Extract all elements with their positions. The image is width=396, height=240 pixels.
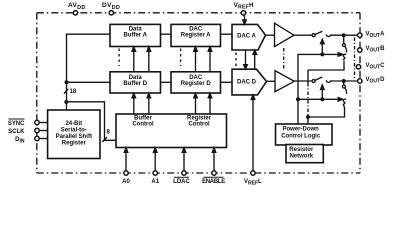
pin VOUTC (356, 65, 360, 69)
svg-text:ENABLE: ENABLE (202, 179, 225, 185)
svg-text:18: 18 (70, 89, 77, 95)
op-amp D (275, 71, 294, 92)
junction power-down rail 1 (296, 97, 300, 101)
switch C blade (345, 88, 347, 94)
svg-text:Control: Control (132, 122, 154, 128)
wire DIN to shift register (39, 138, 47, 140)
svg-text:DAC D: DAC D (237, 80, 257, 86)
wire switch B down to rail (308, 61, 344, 71)
svg-text:Serial-to-: Serial-to- (61, 127, 87, 133)
junction data bus to buffers (65, 80, 69, 84)
switch A blade (315, 31, 322, 34)
power-down rail 2 upper (307, 70, 309, 83)
24-bit serial-to-parallel shift register (48, 110, 100, 159)
pin SYNC (35, 120, 39, 124)
svg-text:DIN: DIN (15, 137, 25, 145)
junction control rail D/C (320, 97, 324, 101)
pin DIN (35, 136, 39, 140)
switch B top contact (342, 44, 345, 47)
svg-text:Power-Down: Power-Down (283, 126, 320, 132)
arrow up to switch A (321, 42, 323, 55)
wire buffer A to register A (161, 33, 172, 35)
svg-text:A1: A1 (151, 179, 159, 185)
Data Buffer A (110, 24, 161, 46)
junction control rail A/B (320, 52, 324, 56)
continuation dash-dot amps (283, 48, 285, 69)
junction power-down rail 2 (306, 115, 310, 119)
arrow right to switch B (338, 53, 343, 57)
svg-text:VREFL: VREFL (244, 179, 262, 185)
switch A hook contact (326, 34, 330, 36)
pin A0 (124, 171, 128, 175)
switch control arrows (321, 39, 343, 101)
arrow register D to register A left (195, 50, 197, 72)
wire VoutA junction down to switch B (343, 35, 345, 43)
VREFH wire DAC A to DAC D (245, 50, 247, 66)
wire DAC A to amp A (266, 34, 275, 36)
svg-text:Register D: Register D (181, 81, 212, 87)
wire 8-bit bus to control box (67, 102, 117, 141)
pin AVDD (73, 11, 77, 15)
power-down rail 2 dash-dot (307, 83, 309, 117)
arrow register D to register A right (209, 50, 211, 72)
pin VOUTD (358, 79, 362, 83)
wire SCLK to shift register (39, 130, 47, 132)
svg-text:LDAC: LDAC (173, 179, 190, 185)
amp D output wire (294, 80, 312, 82)
svg-text:DAC A: DAC A (237, 33, 256, 39)
svg-text:Buffer: Buffer (134, 115, 152, 121)
pin VOUTA (358, 33, 362, 37)
border top (37, 12, 360, 14)
bus slash 18 (64, 89, 68, 94)
border right (359, 13, 361, 173)
svg-text:Register: Register (62, 140, 87, 146)
arrow up to switch D (321, 88, 323, 100)
arrow control to buffer D left (133, 96, 135, 114)
svg-text:VOUTD: VOUTD (366, 77, 386, 85)
junction data bus to control (64, 100, 68, 104)
A0 arrow into control (125, 151, 127, 171)
wire DAC D to amp D (267, 80, 276, 82)
Data Buffer D (110, 72, 161, 93)
pin A1 (153, 171, 157, 175)
continuation dash-dot output channels (354, 38, 356, 79)
border left (36, 13, 38, 173)
pin VREFL (251, 171, 255, 175)
pin ENABLE (212, 171, 216, 175)
continuation dashes registers (180, 49, 182, 67)
border bottom (37, 172, 360, 174)
rail 2 into PD box (307, 117, 309, 124)
op-amp A (275, 23, 295, 46)
rail 1 lower horizontal (298, 98, 341, 100)
resistor network (286, 145, 323, 163)
wire buffer D to register D (161, 81, 172, 83)
svg-text:A0: A0 (122, 179, 130, 185)
wire SYNC to shift register (39, 122, 47, 124)
wire bus to Data Buffer A (67, 34, 111, 82)
svg-text:24-Bit: 24-Bit (65, 121, 82, 127)
pin VOUTB (358, 48, 362, 52)
pin VREFH (241, 11, 245, 15)
svg-text:SYNC: SYNC (8, 121, 25, 127)
svg-text:Control Logic: Control Logic (281, 133, 321, 139)
wire switch A to pin VoutA (331, 34, 358, 36)
switch C hook contact (343, 99, 347, 105)
arrow buffer D to buffer A left (133, 50, 135, 72)
switch B blade (345, 46, 347, 52)
rail 2 horizontal to switch C return (308, 108, 345, 118)
svg-text:Control: Control (188, 122, 210, 128)
svg-text:Register: Register (187, 115, 212, 121)
DAC Register A (171, 24, 221, 46)
arrow control to register D right (209, 96, 211, 114)
switch C top contact (342, 85, 345, 88)
svg-text:AVDD: AVDD (68, 2, 86, 11)
svg-text:VOUTA: VOUTA (366, 31, 386, 39)
DAC D (232, 69, 267, 95)
svg-text:SCLK: SCLK (8, 129, 25, 135)
continuation dashes DACs (235, 53, 237, 68)
rail 1 corner and vertical (298, 54, 341, 124)
pin LDAC (182, 171, 186, 175)
arrow buffer D to buffer A right (148, 50, 150, 72)
svg-text:8: 8 (107, 130, 111, 136)
junction node VoutA (342, 33, 346, 37)
wire bus to Data Buffer D (67, 81, 111, 83)
svg-text:Parallel Shift: Parallel Shift (56, 134, 92, 140)
pin DVDD (109, 11, 113, 15)
buffer control / register control box (116, 114, 227, 148)
bus slash 8 (102, 137, 107, 142)
svg-text:DVDD: DVDD (102, 2, 120, 11)
arrow control to buffer D right (148, 96, 150, 114)
power-down control logic (276, 124, 333, 145)
svg-text:VOUTB: VOUTB (366, 46, 386, 54)
svg-text:Buffer D: Buffer D (123, 81, 147, 87)
svg-text:Buffer A: Buffer A (123, 33, 147, 39)
ENABLE arrow into control (213, 151, 215, 171)
DAC Register D (171, 72, 221, 93)
A1 arrow into control (154, 151, 156, 171)
wire to shift register top (66, 82, 68, 110)
svg-text:VOUTC: VOUTC (366, 63, 386, 71)
arrow right to switch C (338, 98, 343, 102)
DAC A (232, 24, 266, 50)
pin SCLK (35, 128, 39, 132)
amp A output wire (294, 34, 312, 36)
svg-text:VREFH: VREFH (234, 2, 255, 11)
junction node VoutD (342, 79, 346, 83)
VREFL wire into DAC D bottom (252, 98, 254, 171)
continuation dashes buffers (118, 49, 120, 67)
wire VoutD junction down to switch C (343, 81, 345, 85)
wire switch C hook to return (344, 105, 345, 108)
switch D blade (315, 77, 322, 80)
svg-text:Resistor: Resistor (289, 147, 314, 153)
VREFH wire into DAC A top (244, 15, 245, 21)
arrow control to register D left (195, 96, 197, 114)
svg-text:Register A: Register A (181, 33, 211, 39)
switch D hook contact (326, 80, 330, 82)
VREFL wire DAC D to DAC A (254, 53, 256, 69)
svg-text:Network: Network (289, 153, 313, 159)
switch B hook contact (343, 54, 347, 60)
LDAC arrow into control (183, 151, 185, 171)
wire register D to DAC D (221, 81, 233, 83)
output switch network (294, 31, 358, 124)
wire switch D to pin VoutD (331, 80, 358, 82)
switch A contact circle (312, 34, 315, 37)
wire register A to DAC A (221, 33, 233, 35)
switch D contact circle (312, 80, 315, 83)
